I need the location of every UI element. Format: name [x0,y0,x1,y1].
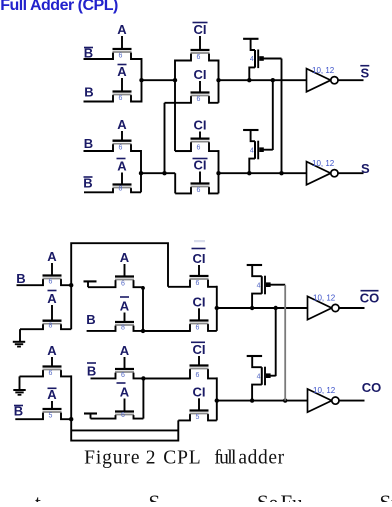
svg-text:A: A [47,343,57,358]
inverter U4 10/12 driving CO [308,386,365,412]
svg-text:8: 8 [121,324,125,331]
wire X2 feed vertical [164,103,166,173]
nmos M9 W=6 [17,263,72,286]
label A (gate of M5) [117,117,127,132]
svg-text:CI: CI [193,251,206,266]
svg-text:A: A [117,22,127,37]
svg-text:full: full [214,447,237,468]
svg-text:6: 6 [197,187,201,194]
nmos M18 W=6 [91,399,144,420]
faint mark artifact [194,240,205,242]
svg-text:2: 2 [146,447,156,468]
svg-text:6: 6 [197,145,201,152]
rail CO-bar [215,306,308,310]
nmos M2 W=6 [84,78,142,102]
svg-text:6: 6 [197,54,201,61]
label output CO-bar [360,291,380,306]
svg-text:6: 6 [197,96,201,103]
ground G2 [13,376,25,394]
svg-text:t: t [35,491,41,503]
label A (gate of M6) [117,159,128,174]
wire MP4 gate to CO-bar rail [275,308,277,376]
title Full Adder (CPL), clipped at top [0,0,118,14]
wire X2 to M8 source [174,173,176,193]
svg-text:4: 4 [257,373,261,380]
label input B-bar [14,404,23,419]
svg-text:A: A [120,299,130,314]
svg-text:B: B [84,85,93,100]
svg-text:6: 6 [49,279,53,286]
nmos M17 W=6 [91,357,144,379]
svg-text:10, 12: 10, 12 [312,159,335,168]
wire pair2 drain vertical [140,150,142,192]
svg-text:CI: CI [194,118,207,133]
svg-text:4: 4 [250,56,254,63]
svg-text:6: 6 [119,144,123,151]
rail CO [215,398,308,402]
nmos M10 W=8 [20,305,71,330]
svg-text:6: 6 [119,52,123,59]
wire MP2 gate to S-bar rail [272,80,274,150]
supply stub V1 [84,281,97,287]
node Y3 [69,417,73,421]
wire group2 drain vertical [218,150,220,193]
label input B-bar [84,46,93,61]
svg-text:B: B [86,312,95,327]
svg-text:Fu: Fu [281,491,304,503]
svg-text:10, 12: 10, 12 [313,386,336,395]
node Y2 [141,329,190,333]
svg-text:A: A [117,117,127,132]
label A (gate of M11) [120,250,130,265]
nmos M4 W=6 [165,81,219,103]
svg-text:adder: adder [238,447,284,468]
svg-text:A: A [120,343,130,358]
svg-text:A: A [117,64,127,79]
svg-text:CO: CO [362,380,382,395]
svg-text:A: A [120,385,130,400]
svg-text:CPL: CPL [163,447,201,468]
wire MP3 gate to CO rail (crossing) [284,285,286,401]
label CI (gate of M8) [193,158,208,173]
svg-text:S: S [361,161,370,176]
nmos M13 W=6 [168,265,217,287]
svg-text:Figure: Figure [84,447,140,468]
wire col2 pair1 drain vertical [141,286,145,331]
svg-text:CI: CI [194,67,207,82]
label input B [16,271,25,286]
nmos M1 W=6 [84,36,142,59]
nmos M15 W=6 [20,357,72,377]
nmos M3 W=6 [175,36,219,61]
svg-text:6: 6 [121,281,125,288]
svg-text:6: 6 [196,280,200,287]
svg-text:A: A [117,159,127,174]
pmos level-restorer MP1 W=4 (VDD bar, gate to S rail) [243,39,281,83]
label CI (gate of M7) [194,118,207,133]
label input B-bar [83,176,92,191]
wire group1 drain vertical [218,60,220,103]
pmos level-restorer MP4 W=4 (VDD bar, gate to CO-bar rail) [247,356,276,403]
svg-text:CO: CO [360,291,380,306]
nmos M7 W=6 [175,132,219,152]
svg-text:8: 8 [49,323,53,330]
wire pair1 drain vertical [141,58,143,103]
svg-text:A: A [120,250,130,265]
svg-text:5: 5 [196,414,200,421]
ground G1 [13,329,25,346]
wire col2 pair2 drain vertical [142,378,144,418]
wire g1 drain vertical [216,286,218,331]
svg-text:CI: CI [193,342,206,357]
svg-text:A: A [47,291,57,306]
label CI (gate of M13) [192,249,206,267]
svg-text:Full Adder (CPL): Full Adder (CPL) [0,0,118,14]
clipped text line at page bottom [35,491,392,507]
nmos M19 W=6 [143,356,216,379]
node X2 (A xor B) [139,171,175,175]
svg-text:6: 6 [49,370,53,377]
label A (gate of M2) [117,64,127,79]
wire pair drain vertical and top run [71,243,168,329]
svg-text:B: B [16,271,25,286]
svg-text:A: A [47,387,57,402]
label CI (gate of M4) [194,67,207,82]
nmos M8 W=6 [175,172,218,194]
svg-text:Se: Se [257,491,278,503]
svg-text:6: 6 [121,412,125,419]
label input B-bar [87,363,96,379]
node Y4 [141,376,190,380]
inverter U3 10/12 driving CO-bar [308,294,365,320]
nmos M16 W=5 [15,401,71,420]
svg-text:CI: CI [193,384,206,399]
node X1 (A xnor B) [139,78,177,82]
label A (gate of M12) [120,297,130,314]
svg-text:CI: CI [194,158,207,173]
label CI (gate of M14) [193,294,206,309]
caption Figure 2 CPL full adder [84,447,285,468]
rail S [216,171,306,175]
label input B [84,85,93,100]
svg-text:10, 12: 10, 12 [313,294,336,303]
svg-text:10, 12: 10, 12 [312,66,335,75]
label A (gate of M15) [47,343,57,358]
node Y1 [69,283,73,287]
svg-text:6: 6 [121,372,125,379]
label output S [361,161,370,176]
label CI (gate of M19) [191,342,206,357]
nmos M11 W=6 [88,264,143,288]
label A (gate of M18) [117,383,130,400]
nmos M14 W=6 [143,308,217,331]
label A (gate of M17) [120,343,130,358]
pmos level-restorer MP2 W=4 (VDD bar, gate to S-bar rail) [243,130,273,175]
svg-text:S: S [149,491,161,503]
svg-text:6: 6 [196,372,200,379]
svg-text:B: B [87,364,96,379]
nmos M6 W=8 [84,173,141,193]
wire pair drain vertical and bottom run (closed loop) [71,375,178,440]
inverter U1 10/12 driving S-bar [307,66,364,92]
svg-text:A: A [47,249,57,264]
supply stub V2 [84,414,97,419]
svg-text:CI: CI [193,294,206,309]
svg-text:5: 5 [49,413,53,420]
label A (gate of M10) [47,291,57,307]
svg-text:S: S [360,66,369,81]
svg-text:CI: CI [194,22,207,37]
wire g2 drain vertical [216,377,218,420]
label output CO [362,380,382,395]
inverter U2 10/12 driving S [307,159,364,185]
nmos M20 W=5 [178,398,217,421]
label output S-bar [360,66,369,81]
nmos M5 W=6 [84,131,142,151]
wire MP1 gate to S rail [281,59,283,174]
nmos M12 W=8 [87,313,143,332]
label input B [86,312,95,327]
svg-text:B: B [84,136,93,151]
svg-text:6: 6 [119,95,123,102]
pmos level-restorer MP3 W=4 (VDD bar, gate to CO rail) [247,265,286,310]
svg-text:4: 4 [250,147,254,154]
label A (gate of M9) [47,249,57,264]
wire X1 feed vertical [175,60,191,152]
rail S-bar [216,78,306,82]
svg-text:6: 6 [196,324,200,331]
label CI (gate of M3) [193,22,208,37]
label input B [84,136,93,151]
label CI (gate of M20) [193,384,206,399]
label A (gate of M1) [117,22,127,37]
label A (gate of M16) [47,387,57,402]
svg-text:St: St [380,491,392,503]
svg-text:8: 8 [119,186,123,193]
svg-text:4: 4 [257,282,261,289]
